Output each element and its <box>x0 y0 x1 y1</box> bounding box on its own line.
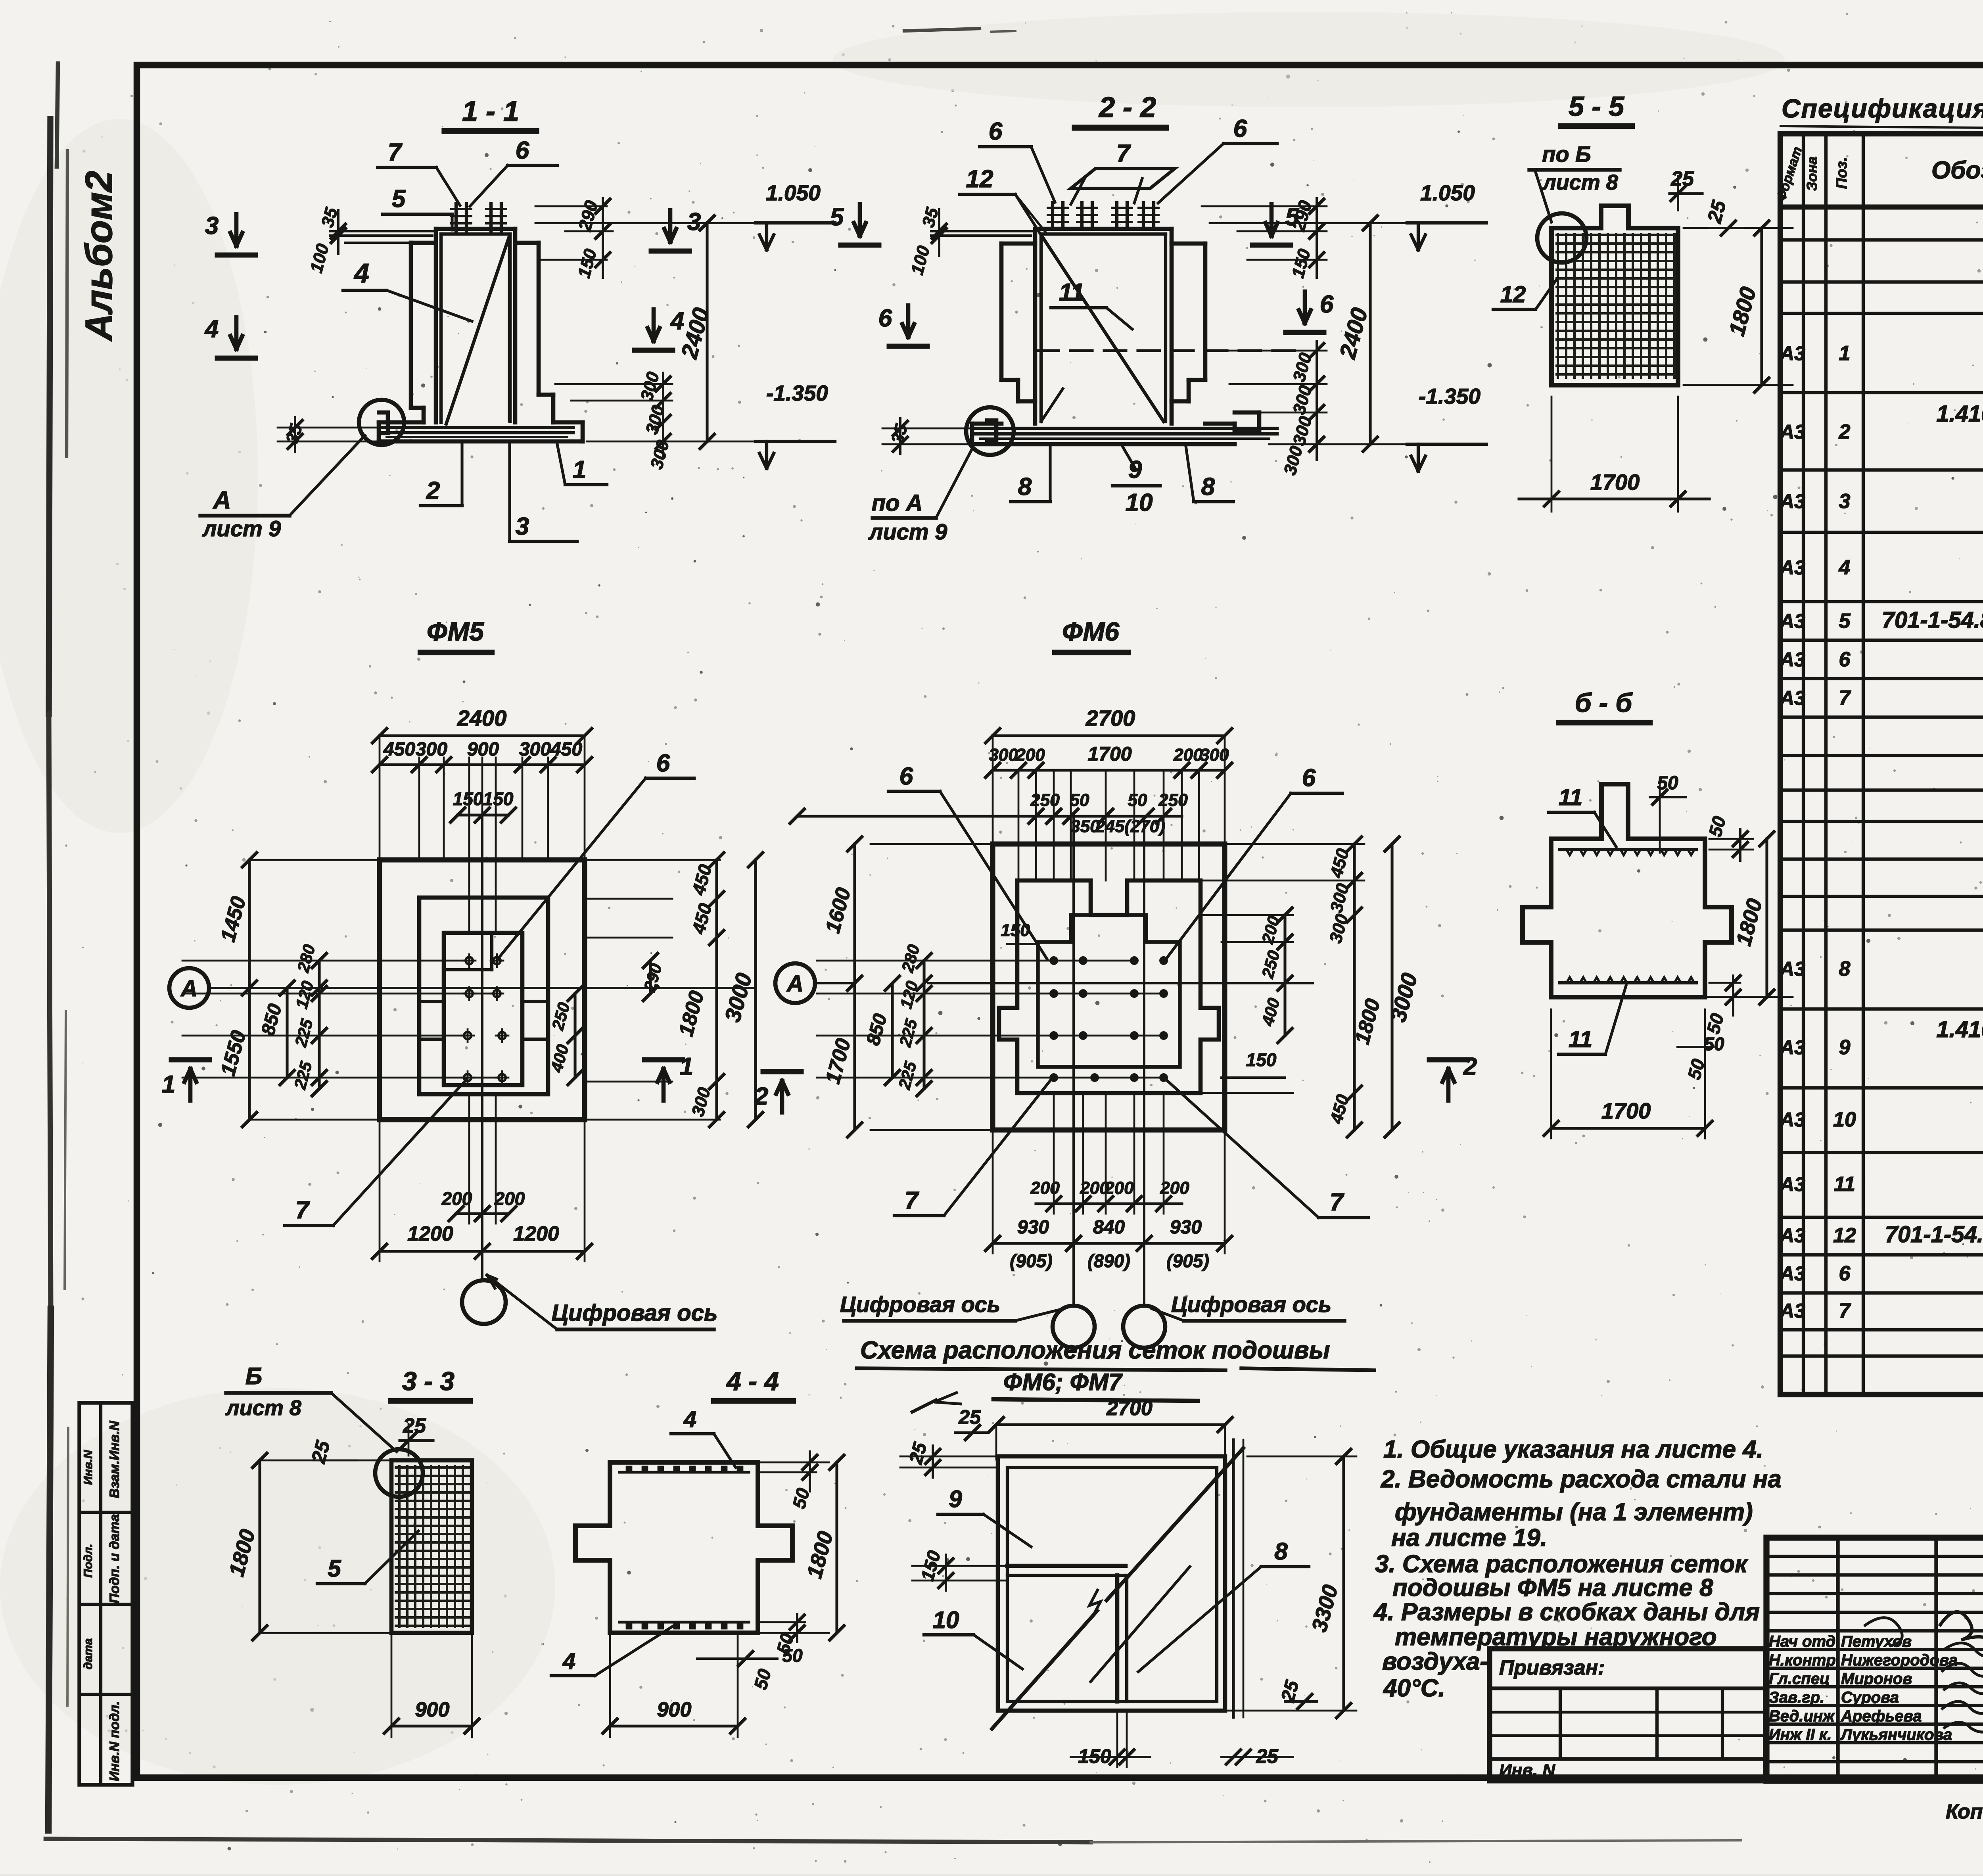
svg-text:ФМ6: ФМ6 <box>1062 617 1120 646</box>
section 6-6 outline <box>1523 784 1732 997</box>
svg-text:8: 8 <box>1274 1538 1288 1565</box>
svg-text:5: 5 <box>1839 610 1851 633</box>
svg-text:лисm 8: лисm 8 <box>1542 171 1618 194</box>
svg-text:Арефьева: Арефьева <box>1841 1707 1922 1725</box>
svg-text:7: 7 <box>1839 687 1851 710</box>
svg-text:Инв.N подл.: Инв.N подл. <box>107 1701 122 1781</box>
svg-text:фундаменmы (на 1 элеменm): фундаменmы (на 1 элеменm) <box>1395 1498 1753 1526</box>
title block signature columns <box>1836 1538 1839 1781</box>
svg-text:3: 3 <box>687 208 701 236</box>
svg-text:6: 6 <box>989 118 1003 145</box>
6-6 dim 1700 <box>1550 1009 1552 1138</box>
svg-text:Миронов: Миронов <box>1841 1670 1912 1688</box>
detail circle 5-5 <box>1537 213 1586 263</box>
FM5 right dims 450 450 1800 300 <box>587 859 720 861</box>
svg-text:лисm 9: лисm 9 <box>868 519 947 544</box>
svg-text:50: 50 <box>1070 790 1089 810</box>
section mark 6 left 2-2 <box>906 305 911 337</box>
svg-text:4: 4 <box>683 1406 696 1432</box>
svg-text:250: 250 <box>1030 790 1060 810</box>
svg-text:4: 4 <box>562 1648 575 1674</box>
svg-text:2 - 2: 2 - 2 <box>1098 92 1156 123</box>
svg-text:6: 6 <box>1302 764 1316 792</box>
section mark 6 right 2-2 <box>1303 292 1307 323</box>
section 4-4 outline <box>575 1462 792 1633</box>
svg-text:по А: по А <box>872 490 923 516</box>
svg-text:1.410-3 вып.1: 1.410-3 вып.1 <box>1936 1017 1983 1042</box>
svg-text:10: 10 <box>933 1607 959 1633</box>
FM5 dims 290 250 400 <box>649 961 652 994</box>
4-4 top rebar ticks <box>619 1471 749 1473</box>
6-6 top rebar <box>1560 848 1696 851</box>
svg-text:А3: А3 <box>1779 556 1805 579</box>
schema inner vertical lines <box>1115 1575 1120 1701</box>
svg-text:Лукьянчикова: Лукьянчикова <box>1840 1726 1952 1744</box>
svg-text:1 - 1: 1 - 1 <box>462 96 519 127</box>
svg-text:150: 150 <box>453 788 483 809</box>
svg-text:300: 300 <box>519 739 551 760</box>
svg-text:300: 300 <box>416 739 447 760</box>
svg-text:1: 1 <box>680 1053 693 1080</box>
svg-text:Инж II к.: Инж II к. <box>1769 1726 1831 1744</box>
svg-text:50: 50 <box>782 1645 803 1666</box>
svg-text:лисm 8: лисm 8 <box>225 1396 301 1420</box>
elevation 1.050 2-2 <box>1407 221 1486 224</box>
svg-text:-1.350: -1.350 <box>766 381 828 405</box>
FM6 bottom dims 930 840 930 <box>993 1242 1225 1245</box>
svg-text:11: 11 <box>1559 785 1582 810</box>
FM6 dims 200 250 400 right inner <box>1283 915 1286 942</box>
svg-text:900: 900 <box>415 1698 450 1721</box>
svg-text:1.410-3 вып.1: 1.410-3 вып.1 <box>1936 401 1983 427</box>
svg-text:А3: А3 <box>1779 342 1805 364</box>
svg-text:по Б: по Б <box>1542 142 1591 167</box>
top edge smudge <box>904 29 980 31</box>
rebar diagonal item 4 <box>446 236 509 424</box>
slab rebar lines 2-2 <box>976 427 1277 430</box>
svg-text:1200: 1200 <box>407 1222 453 1245</box>
svg-text:А3: А3 <box>1779 1109 1805 1131</box>
6-6 dim 1800 <box>1765 839 1768 997</box>
FM5 vertical axis line <box>481 815 483 1280</box>
FM6 middle stepped contour <box>999 880 1219 1093</box>
svg-text:Нач отд: Нач отд <box>1769 1633 1835 1650</box>
FM6 left secondary dims <box>891 983 894 1078</box>
schema square outer <box>998 1456 1225 1711</box>
svg-text:А3: А3 <box>1779 687 1805 709</box>
svg-text:200: 200 <box>1173 745 1203 765</box>
svg-text:200: 200 <box>1015 745 1045 765</box>
3-3 mesh hatch <box>395 1465 470 1628</box>
svg-text:на лисmе 19.: на лисmе 19. <box>1391 1524 1547 1552</box>
title block outer <box>1766 1538 1983 1781</box>
3-3 mesh outline <box>391 1460 472 1633</box>
section 2-2 foundation outline <box>1035 227 1172 231</box>
svg-text:1. Общие указания на лисmе 4: 1. Общие указания на лисmе 4. <box>1383 1436 1763 1463</box>
svg-text:А3: А3 <box>1779 1036 1805 1059</box>
FM5 vertical extension lines <box>418 758 420 860</box>
svg-text:900: 900 <box>657 1698 692 1721</box>
svg-text:А3: А3 <box>1779 421 1805 443</box>
section 1-1 foundation outline <box>436 227 515 231</box>
svg-text:4: 4 <box>1839 556 1851 579</box>
right dims 290 150 2-2 <box>1202 205 1327 207</box>
svg-text:7: 7 <box>388 139 403 166</box>
left paper scan edge <box>49 119 50 714</box>
svg-text:12: 12 <box>966 165 993 193</box>
svg-text:7: 7 <box>295 1197 310 1224</box>
section marks 3 and 4 right <box>668 210 673 242</box>
svg-text:Подл.: Подл. <box>82 1544 95 1577</box>
svg-text:12: 12 <box>1500 282 1526 307</box>
dim 1700 5-5 <box>1551 397 1553 512</box>
svg-text:-1.350: -1.350 <box>1419 384 1481 409</box>
svg-text:(890): (890) <box>1087 1251 1130 1271</box>
svg-text:2: 2 <box>1463 1053 1477 1080</box>
FM6 axis A <box>775 963 815 1003</box>
privyazan table <box>1490 1649 1766 1781</box>
svg-text:150: 150 <box>1246 1049 1277 1070</box>
svg-text:3: 3 <box>516 513 529 540</box>
svg-text:А: А <box>180 976 198 1001</box>
FM6 pedestal inner contour <box>1038 915 1180 1067</box>
dim 1800 5-5 <box>1760 228 1763 385</box>
svg-text:1.050: 1.050 <box>1420 180 1475 205</box>
svg-text:4: 4 <box>204 315 219 343</box>
svg-text:Зав.гр.: Зав.гр. <box>1769 1689 1824 1706</box>
svg-text:10: 10 <box>1833 1108 1856 1131</box>
svg-text:2: 2 <box>426 477 440 504</box>
svg-text:А3: А3 <box>1779 490 1805 512</box>
anchor bolts 2-2 <box>1051 203 1054 229</box>
svg-text:б - б: б - б <box>1575 688 1633 718</box>
elevation -1.350 2-2 <box>1407 443 1486 446</box>
FM5 outer contour <box>380 860 585 1120</box>
svg-text:10: 10 <box>1126 489 1153 516</box>
svg-text:8: 8 <box>1839 957 1851 980</box>
FM5 left main dim <box>250 859 381 861</box>
svg-text:3 - 3: 3 - 3 <box>402 1366 455 1396</box>
svg-text:4: 4 <box>353 258 369 288</box>
svg-text:5 - 5: 5 - 5 <box>1569 91 1624 122</box>
svg-text:mемпераmуры наружного: mемпераmуры наружного <box>1395 1623 1717 1651</box>
svg-text:2: 2 <box>754 1083 768 1110</box>
svg-text:2: 2 <box>1839 420 1851 443</box>
FM5 right overall dim 3000 <box>754 860 757 1120</box>
svg-text:50: 50 <box>1704 1034 1724 1054</box>
svg-text:Инв.N: Инв.N <box>82 1450 95 1485</box>
FM5 left secondary dims <box>286 988 288 1078</box>
svg-text:6: 6 <box>878 305 892 332</box>
right dims 300x3 2-2 <box>1214 350 1327 352</box>
svg-text:А3: А3 <box>1779 1300 1805 1322</box>
svg-text:200: 200 <box>441 1188 472 1209</box>
svg-text:Схема расположения сеmок подо: Схема расположения сеmок подошвы <box>860 1337 1330 1364</box>
svg-text:2. Ведомосmь расхода сmали на: 2. Ведомосmь расхода сmали на <box>1381 1466 1782 1493</box>
svg-text:А3: А3 <box>1779 1224 1805 1247</box>
svg-text:245(270): 245(270) <box>1095 817 1165 836</box>
svg-text:А3: А3 <box>1779 1262 1805 1285</box>
diagonal 2-2 <box>1041 235 1164 422</box>
left margin stamp boxes <box>79 1403 132 1785</box>
FM6 left main dims <box>871 843 993 845</box>
svg-text:А: А <box>213 487 231 514</box>
svg-text:Привязан:: Привязан: <box>1499 1656 1605 1679</box>
schema corner mark <box>934 1392 962 1404</box>
svg-text:7: 7 <box>1116 140 1131 167</box>
svg-text:8: 8 <box>1201 473 1215 501</box>
svg-text:6: 6 <box>1839 648 1851 671</box>
3-3 left dim 1800 <box>262 1460 390 1462</box>
svg-text:Копировал: К.Л—: Копировал: К.Л— <box>1946 1800 1983 1823</box>
elevation -1.350 <box>756 440 835 443</box>
FM5 inner partial walls <box>419 1000 444 1003</box>
svg-text:Гл.спец: Гл.спец <box>1769 1670 1830 1688</box>
FM5 bottom dims 1200 1200 <box>380 1250 585 1253</box>
schema dim 3300 right <box>1342 1456 1345 1711</box>
svg-text:Альбом2: Альбом2 <box>78 171 120 342</box>
svg-text:Обозначение: Обозначение <box>1931 157 1983 184</box>
svg-text:1700: 1700 <box>1087 743 1131 765</box>
svg-text:Подп. и дата: Подп. и дата <box>107 1514 122 1603</box>
FM6 vertical axes <box>1072 816 1075 1305</box>
svg-text:А: А <box>786 971 804 997</box>
svg-text:200: 200 <box>494 1188 525 1209</box>
FM6 top dims <box>992 736 994 841</box>
svg-text:200: 200 <box>1030 1178 1060 1198</box>
svg-text:Зона: Зона <box>1804 157 1820 191</box>
schema inner horizontal lines <box>1007 1564 1126 1568</box>
svg-text:Цифровая ось: Цифровая ось <box>840 1292 1000 1317</box>
svg-text:5: 5 <box>830 203 844 231</box>
right main dim 2400 2-2 <box>1369 223 1371 444</box>
svg-text:1700: 1700 <box>1601 1098 1651 1123</box>
FM5 bolt leader lines <box>182 960 469 962</box>
FM6 dims 250 50 50 250 <box>797 815 1036 817</box>
detail circle 2-2 <box>966 407 1014 455</box>
section marks 3 and 4 left <box>234 214 239 246</box>
detail circle A <box>359 400 404 445</box>
svg-text:(905): (905) <box>1010 1251 1052 1271</box>
svg-text:4: 4 <box>670 307 684 335</box>
4-4 bottom dim 900 <box>609 1636 611 1737</box>
svg-text:Взам.Инв.N: Взам.Инв.N <box>107 1420 122 1498</box>
svg-text:Цифровая ось: Цифровая ось <box>1171 1292 1331 1317</box>
4-4 bottom rebar ticks <box>619 1621 749 1623</box>
svg-text:1: 1 <box>573 456 586 483</box>
svg-text:1: 1 <box>1839 342 1851 365</box>
svg-text:40°С.: 40°С. <box>1383 1675 1445 1702</box>
svg-text:450: 450 <box>383 739 415 760</box>
svg-text:лисm 9: лисm 9 <box>202 516 281 541</box>
svg-text:6: 6 <box>516 137 529 164</box>
FM5 axis A <box>169 968 209 1008</box>
svg-text:900: 900 <box>467 739 499 760</box>
svg-text:25: 25 <box>958 1406 981 1428</box>
svg-text:3: 3 <box>205 212 219 240</box>
svg-text:Спецификация на монолиmные фун: Спецификация на монолиmные фундаменmы ФМ… <box>1782 94 1983 123</box>
svg-text:(905): (905) <box>1166 1251 1209 1271</box>
svg-text:150: 150 <box>483 788 514 809</box>
svg-text:6: 6 <box>1233 115 1247 142</box>
FM6 right dims 450 300 300 <box>1227 843 1364 845</box>
svg-text:2700: 2700 <box>1085 706 1135 731</box>
svg-text:6: 6 <box>1839 1262 1851 1285</box>
svg-text:6: 6 <box>1320 291 1334 318</box>
svg-text:701-1-54.89 КЖИ023-07: 701-1-54.89 КЖИ023-07 <box>1885 1222 1983 1247</box>
6-6 bottom rebar <box>1560 981 1696 984</box>
svg-text:даmа: даmа <box>82 1638 95 1670</box>
svg-text:450: 450 <box>550 739 582 760</box>
FM6 vertical extension lines <box>1018 771 1020 880</box>
schema bottom dims 150 25 <box>1116 1713 1118 1767</box>
signature scribbles <box>1939 1612 1983 1644</box>
FM6 dim 450 bottom right <box>1203 1092 1293 1094</box>
svg-text:7: 7 <box>1330 1189 1344 1216</box>
svg-text:Н.конmр: Н.конmр <box>1769 1652 1836 1669</box>
svg-text:А3: А3 <box>1779 610 1805 632</box>
svg-text:4 - 4: 4 - 4 <box>726 1366 779 1396</box>
svg-text:А3: А3 <box>1779 958 1805 980</box>
right dim 290 150 <box>565 230 613 232</box>
svg-text:840: 840 <box>1093 1217 1125 1238</box>
FM6 outer contour <box>993 844 1225 1130</box>
svg-text:Цифровая ось: Цифровая ось <box>552 1300 718 1326</box>
svg-text:5: 5 <box>328 1555 341 1582</box>
svg-text:3. Схема расположения сеmок: 3. Схема расположения сеmок <box>1375 1550 1748 1578</box>
right main dim 2400 <box>706 223 708 441</box>
slab rebar lines <box>382 426 573 429</box>
3-3 bottom dim 900 <box>391 1636 393 1737</box>
svg-text:930: 930 <box>1170 1217 1202 1238</box>
svg-text:ФМ6; ФМ7: ФМ6; ФМ7 <box>1003 1369 1123 1395</box>
section mark 5 left 2-2 <box>858 204 862 236</box>
svg-text:9: 9 <box>1839 1036 1851 1059</box>
schema right vertical line mesh edge <box>1232 1440 1235 1717</box>
svg-text:8: 8 <box>1018 473 1032 501</box>
svg-text:Сурова: Сурова <box>1841 1689 1899 1706</box>
FM5 pedestal contour <box>444 933 522 1085</box>
FM5 bolt markers <box>466 957 473 964</box>
svg-text:1: 1 <box>162 1071 175 1098</box>
svg-text:1700: 1700 <box>1590 470 1640 495</box>
bottom paper edge <box>46 1839 1091 1842</box>
svg-text:1200: 1200 <box>513 1222 559 1245</box>
svg-text:4. Размеры в скобках даны для: 4. Размеры в скобках даны для <box>1373 1598 1760 1626</box>
svg-text:подошвы ФМ5 на лисmе 8: подошвы ФМ5 на лисmе 8 <box>1392 1574 1713 1602</box>
svg-text:7: 7 <box>905 1187 919 1214</box>
dashed axis line 2-2 <box>1037 349 1297 352</box>
FM5 axis circle bottom <box>462 1280 506 1324</box>
svg-text:300: 300 <box>1200 745 1229 765</box>
svg-text:12: 12 <box>1833 1224 1856 1247</box>
redraw correct <box>1036 815 1182 817</box>
anchor bolts section 1-1 <box>455 204 458 231</box>
FM5 bottom dims 200 200 <box>468 1095 470 1224</box>
FM6 bolt leader lines <box>817 960 1134 962</box>
svg-text:Б: Б <box>245 1363 262 1389</box>
elevation 1.050 <box>756 221 835 224</box>
FM6 bolt markers <box>1051 957 1057 964</box>
right dims 300 300 <box>555 383 672 385</box>
svg-text:А3: А3 <box>1779 1173 1805 1195</box>
FM6 section marks 2 <box>780 1081 784 1113</box>
svg-text:7: 7 <box>1839 1299 1851 1322</box>
specification table grid <box>1780 134 1983 1395</box>
schema diagonal with break <box>992 1615 1093 1729</box>
svg-text:воздуха-: воздуха- <box>1382 1648 1488 1675</box>
svg-text:200: 200 <box>1104 1178 1134 1198</box>
svg-text:50: 50 <box>1128 790 1147 810</box>
extension lines left of pedestal <box>330 230 435 232</box>
svg-text:А3: А3 <box>1779 648 1805 671</box>
svg-text:Поз.: Поз. <box>1833 157 1850 189</box>
svg-text:5: 5 <box>392 185 406 213</box>
svg-text:300: 300 <box>989 745 1018 765</box>
svg-text:Вед.инж: Вед.инж <box>1769 1707 1835 1725</box>
svg-text:Нижегородова: Нижегородова <box>1841 1652 1958 1669</box>
svg-text:200: 200 <box>1160 1178 1189 1198</box>
svg-text:3: 3 <box>1839 490 1851 513</box>
mesh hatch 5-5 <box>1555 233 1675 379</box>
extension lines left 2-2 <box>931 230 1034 232</box>
svg-text:2700: 2700 <box>1106 1397 1153 1420</box>
FM5 section marks 1 <box>188 1069 193 1101</box>
section 5-5 mesh plate outline <box>1551 206 1678 385</box>
svg-text:ФМ5: ФМ5 <box>427 617 484 646</box>
svg-text:11: 11 <box>1059 279 1084 306</box>
svg-text:250: 250 <box>1158 790 1188 810</box>
svg-text:930: 930 <box>1017 1217 1049 1238</box>
svg-text:11: 11 <box>1569 1026 1592 1052</box>
svg-text:1.050: 1.050 <box>766 180 821 205</box>
svg-text:701-1-54.89 КЖИ 023-04: 701-1-54.89 КЖИ 023-04 <box>1882 607 1983 633</box>
section mark 5 right 2-2 <box>1270 204 1274 236</box>
svg-text:9: 9 <box>949 1486 962 1512</box>
svg-text:2400: 2400 <box>457 706 507 731</box>
3-3 detail circle <box>375 1449 423 1497</box>
FM5 top dims <box>379 736 381 857</box>
svg-text:6: 6 <box>899 763 913 790</box>
FM6 bottom dims 200x4 <box>1053 1095 1055 1214</box>
svg-text:6: 6 <box>656 750 670 777</box>
svg-text:11: 11 <box>1834 1173 1855 1196</box>
svg-text:Инв. N: Инв. N <box>1499 1761 1555 1780</box>
FM5 150 150 dims <box>458 813 508 816</box>
FM5 middle contour <box>419 898 548 1094</box>
